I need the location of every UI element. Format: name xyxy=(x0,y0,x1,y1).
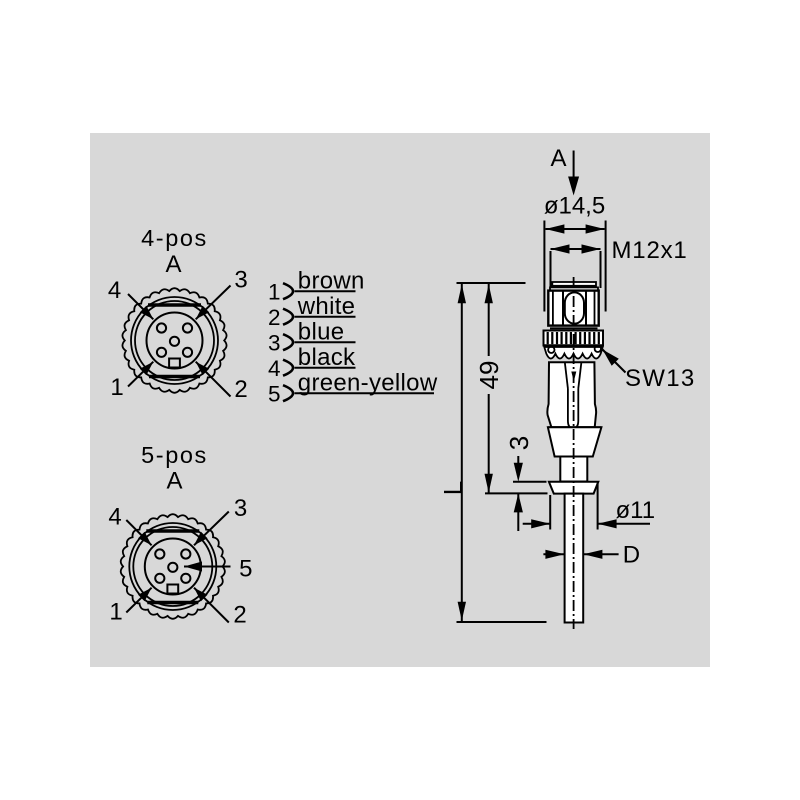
dimension line M12x1 xyxy=(551,248,601,250)
leader line pin 4 xyxy=(128,294,153,319)
gray drawing panel xyxy=(90,133,710,667)
svg-text:M12x1: M12x1 xyxy=(612,237,688,264)
dimension line 49 upper xyxy=(488,284,490,356)
svg-text:2: 2 xyxy=(268,305,281,330)
leader line pin 3 xyxy=(196,286,231,320)
knurled coupling ring xyxy=(544,331,604,346)
svg-text:2: 2 xyxy=(234,376,247,403)
coupling nut circle xyxy=(129,523,216,610)
svg-text:A: A xyxy=(165,251,181,278)
center axis line xyxy=(573,277,575,629)
leader line pin 1 xyxy=(126,588,151,613)
keyway notch xyxy=(169,359,180,368)
wire 2 line xyxy=(295,316,356,318)
dimension line 3 lower xyxy=(517,493,519,531)
svg-text:3: 3 xyxy=(234,495,247,522)
wire 5 bracket xyxy=(283,385,293,401)
leader line pin 1 xyxy=(128,362,153,387)
thread base band xyxy=(550,287,598,290)
top flat chord xyxy=(148,303,201,306)
pin 3 hole xyxy=(181,549,190,558)
pin 4 hole xyxy=(157,323,166,332)
bottom flat chord xyxy=(149,375,200,378)
svg-text:4-pos: 4-pos xyxy=(141,225,208,251)
svg-text:ø11: ø11 xyxy=(616,497,656,524)
svg-text:green-yellow: green-yellow xyxy=(298,370,438,397)
svg-text:3: 3 xyxy=(268,330,281,355)
collar line under hex xyxy=(550,327,598,329)
body lip line xyxy=(548,426,602,428)
leader line pin 4 xyxy=(126,520,151,545)
svg-text:ø14,5: ø14,5 xyxy=(544,193,605,220)
extension line flange top (3) xyxy=(513,481,547,483)
extension line left (ø11) xyxy=(549,495,551,530)
center pin hole xyxy=(168,563,177,572)
flange ø11 xyxy=(549,482,598,494)
inner contact funnel xyxy=(565,363,581,428)
svg-text:1: 1 xyxy=(109,599,122,626)
svg-text:1: 1 xyxy=(268,279,281,304)
wire 3 line xyxy=(295,341,356,343)
coupling nut circle xyxy=(131,297,218,384)
svg-text:A: A xyxy=(550,145,566,172)
keyway notch xyxy=(167,585,178,594)
wire 3 bracket xyxy=(283,334,293,350)
extension line right (ø14,5) xyxy=(605,221,607,312)
leader line pin 2 xyxy=(196,362,231,397)
extension line right (ø11) xyxy=(597,483,599,530)
svg-text:SW13: SW13 xyxy=(625,365,696,392)
svg-text:49: 49 xyxy=(474,361,504,390)
svg-text:4: 4 xyxy=(268,356,281,381)
thread circle xyxy=(135,301,214,380)
connector face outer knurled ring xyxy=(121,514,225,619)
pin 1 hole xyxy=(155,574,164,583)
bottom flat chord xyxy=(147,601,198,604)
svg-text:5: 5 xyxy=(268,381,281,406)
pin 2 hole xyxy=(183,348,192,357)
svg-text:4: 4 xyxy=(108,504,121,531)
dimension line 3 upper xyxy=(517,456,519,464)
svg-text:brown: brown xyxy=(298,268,365,295)
scalloped ring skirt xyxy=(544,346,602,359)
wire 4 line xyxy=(295,367,356,369)
svg-text:D: D xyxy=(623,542,640,569)
dimension line ø14,5 xyxy=(545,228,604,230)
leader line pin 2 xyxy=(194,588,229,623)
view direction arrow A xyxy=(573,151,575,179)
extension line left (ø14,5) xyxy=(543,221,545,312)
thread chamfer band xyxy=(552,282,596,286)
lower cone xyxy=(548,427,602,456)
wire 2 bracket xyxy=(283,309,293,325)
pin 2 hole xyxy=(181,574,190,583)
leader line pin 3 xyxy=(194,512,229,546)
top flat chord xyxy=(146,529,199,532)
svg-text:A: A xyxy=(166,468,182,495)
wire 4 bracket xyxy=(283,360,293,376)
dimension line D left tail xyxy=(543,553,564,555)
leader line SW13 xyxy=(603,350,626,373)
extension line left (M12x1) xyxy=(550,251,552,288)
leader line pin 5 xyxy=(184,566,231,568)
upper body cylinder xyxy=(547,362,596,427)
dimension line D right tail xyxy=(583,553,618,555)
dimension line 49 lower xyxy=(488,394,490,493)
dimension line L xyxy=(461,284,463,621)
svg-text:2: 2 xyxy=(233,602,246,629)
wire 1 bracket xyxy=(283,283,293,299)
pin 4 hole xyxy=(155,549,164,558)
insert face circle xyxy=(147,313,203,369)
center pin hole xyxy=(170,337,179,346)
cable xyxy=(565,494,584,623)
neck xyxy=(560,457,587,482)
svg-text:black: black xyxy=(298,344,356,371)
svg-text:3: 3 xyxy=(234,267,247,294)
svg-text:5-pos: 5-pos xyxy=(141,442,208,468)
extension line top (L/49) xyxy=(457,282,526,284)
connector face outer knurled ring xyxy=(122,288,226,393)
svg-text:1: 1 xyxy=(110,374,123,401)
pin 3 hole xyxy=(183,323,192,332)
svg-text:4: 4 xyxy=(108,277,121,304)
dimension line ø11 left tail xyxy=(523,523,551,525)
svg-text:blue: blue xyxy=(298,319,345,346)
svg-text:white: white xyxy=(297,293,356,320)
svg-text:5: 5 xyxy=(239,556,252,583)
wire 5 line xyxy=(295,392,435,394)
extension line bottom (L) xyxy=(457,621,547,623)
svg-text:3: 3 xyxy=(504,436,534,450)
svg-text:L: L xyxy=(438,481,468,495)
hex nut SW13 body xyxy=(548,291,598,326)
wire 1 line xyxy=(295,290,356,292)
thread circle xyxy=(133,527,212,606)
extension line right (M12x1) xyxy=(600,251,602,288)
insert face circle xyxy=(145,539,201,595)
dimension line ø11 right tail xyxy=(598,523,650,525)
extension line flange bottom (49/3) xyxy=(485,492,548,494)
pin 1 hole xyxy=(157,348,166,357)
